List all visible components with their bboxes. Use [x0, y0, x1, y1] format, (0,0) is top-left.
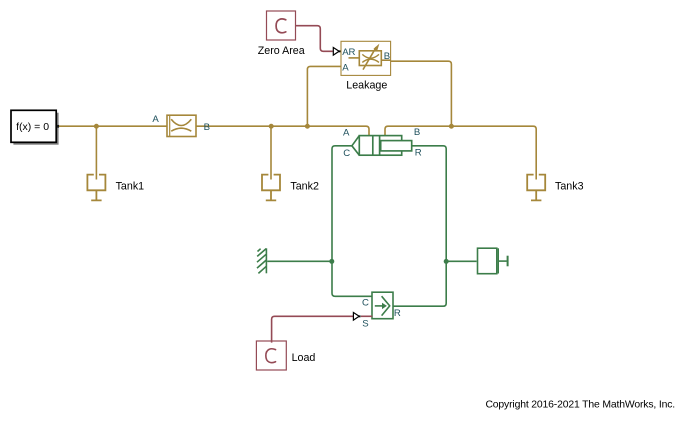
junction node at leakage A branch	[305, 124, 310, 129]
wire cylinder C loop to force source C	[332, 146, 372, 296]
tank T1	[87, 174, 107, 201]
force source block	[372, 292, 393, 319]
svg-text:f(x) = 0: f(x) = 0	[16, 121, 49, 133]
svg-text:C: C	[343, 148, 350, 159]
wire R loop to mass	[446, 260, 476, 262]
svg-text:S: S	[362, 319, 368, 330]
wire leakage port A branch	[307, 66, 341, 126]
svg-text:Copyright 2016-2021 The MathWo: Copyright 2016-2021 The MathWorks, Inc.	[485, 400, 675, 411]
wire Load to force source S	[272, 316, 353, 342]
solver block f(x)=0	[11, 110, 59, 144]
junction node C loop / wall	[329, 259, 334, 264]
wire cylinder R loop to force source R	[393, 146, 446, 306]
wire cylinder B to tank3 bus	[385, 126, 536, 179]
input arrow at S port	[353, 313, 359, 321]
tank T2	[261, 174, 281, 201]
svg-text:Tank1: Tank1	[116, 181, 145, 193]
wire wall to C loop	[267, 260, 332, 262]
wire Zero Area to leakage AR	[296, 26, 333, 52]
svg-text:A: A	[342, 63, 349, 74]
svg-text:Tank3: Tank3	[555, 181, 584, 193]
junction node at tank1	[94, 124, 99, 129]
wire leakage port B to bus	[391, 61, 452, 126]
junction node at tank2	[269, 124, 274, 129]
junction node at leakage B / tank3	[449, 124, 454, 129]
svg-text:Leakage: Leakage	[346, 79, 387, 91]
constant block C Zero Area	[267, 11, 296, 40]
svg-text:Zero Area: Zero Area	[258, 45, 305, 57]
svg-text:R: R	[415, 148, 422, 159]
svg-text:B: B	[384, 51, 390, 62]
wire arrow to S port	[361, 315, 372, 317]
svg-text:R: R	[394, 308, 401, 319]
svg-text:B: B	[204, 122, 210, 133]
tank T3	[526, 174, 546, 201]
hydraulic cylinder block	[352, 136, 412, 156]
mass block	[478, 248, 508, 274]
svg-text:A: A	[343, 127, 350, 138]
wire main hydraulic bus	[59, 126, 369, 135]
svg-text:Tank2: Tank2	[290, 181, 319, 193]
svg-text:AR: AR	[342, 47, 355, 58]
svg-text:Load: Load	[292, 352, 316, 364]
wire tank1 branch	[95, 126, 97, 179]
constant block C Load	[256, 341, 286, 370]
leakage variable orifice block	[341, 41, 391, 75]
mechanical reference wall	[257, 248, 266, 273]
svg-text:C: C	[362, 298, 369, 309]
svg-text:B: B	[414, 127, 420, 138]
svg-text:A: A	[152, 114, 159, 125]
junction node R loop / mass	[444, 259, 449, 264]
input arrow at AR port	[333, 48, 339, 56]
wire tank2 branch	[270, 126, 272, 179]
local restriction block (orifice)	[167, 115, 196, 136]
